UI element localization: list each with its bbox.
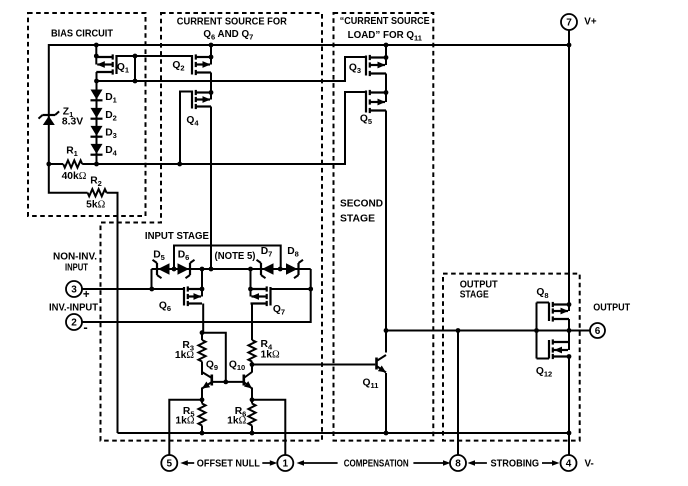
transistor Q11 NPN second stage bbox=[385, 331, 387, 353]
transistor Q6 PMOS input bbox=[201, 269, 203, 289]
junction Q7 source-bulk tie bbox=[248, 287, 253, 292]
transistor Q5 PMOS bbox=[365, 91, 367, 113]
svg-text:5: 5 bbox=[167, 459, 173, 470]
pin 1 offset null bbox=[277, 455, 293, 471]
junction Q1 gate tie top bbox=[133, 54, 138, 59]
svg-text:1kΩ: 1kΩ bbox=[175, 416, 194, 427]
label OFFSET NULL with arrows bbox=[185, 462, 194, 464]
transistor Q4 PMOS bbox=[180, 92, 192, 165]
dashed box: OUTPUT STAGE block bbox=[443, 274, 580, 441]
junction pin2 wire / Q7 gate / D8 cathode bbox=[308, 287, 313, 292]
transistor Q8 PMOS output bbox=[548, 303, 550, 322]
junction compensation line / pin 8 stem bbox=[456, 328, 461, 333]
svg-text:INPUT STAGE: INPUT STAGE bbox=[145, 231, 209, 242]
wire V+ drop to Q8 source bbox=[568, 45, 570, 305]
junction bias line / Q1 gate tie bbox=[133, 79, 138, 84]
transistor Q12 NMOS output bbox=[548, 340, 550, 359]
wire pin5 jog bbox=[169, 400, 202, 455]
svg-text:STROBING: STROBING bbox=[491, 459, 540, 470]
resistor R6 1k bbox=[248, 404, 255, 426]
junction Q6 drain / R3 top / bases feed bbox=[200, 330, 205, 335]
svg-text:5kΩ: 5kΩ bbox=[86, 200, 105, 211]
resistor R5 1k bbox=[198, 404, 205, 426]
pin 6 output bbox=[590, 323, 605, 338]
svg-text:SECOND: SECOND bbox=[340, 199, 383, 210]
junction V+ rail / Q2 source bbox=[209, 43, 214, 48]
diode D4 bbox=[91, 144, 103, 154]
wire V- rail y=433 bbox=[118, 432, 570, 434]
junction Q1 source-bulk tie bbox=[94, 54, 99, 59]
junction Q2 source-bulk tie bbox=[209, 55, 214, 60]
junction V+ rail / Q3 source bbox=[384, 43, 389, 48]
diode D2 bbox=[91, 108, 103, 118]
svg-text:2: 2 bbox=[71, 318, 77, 329]
dashed box: CURRENT SOURCE LOAD / SECOND STAGE block bbox=[334, 13, 434, 441]
svg-text:OFFSET NULL: OFFSET NULL bbox=[197, 459, 260, 470]
pin 3 non-inverting input bbox=[66, 281, 82, 297]
svg-text:INPUT: INPUT bbox=[65, 263, 88, 274]
wire bias feed to diode midpoints y=245.5 bbox=[174, 246, 281, 270]
svg-text:8.3V: 8.3V bbox=[62, 116, 83, 127]
transistor Q1 PMOS bbox=[95, 45, 97, 57]
junction D7-D8 midpoint bbox=[278, 267, 283, 272]
junction R4 bottom / Q10 collector / Q11 base line bbox=[250, 362, 255, 367]
zener Z1 8.3V bbox=[43, 114, 56, 116]
wire pin3 to Q6 gate bbox=[82, 288, 184, 290]
svg-text:STAGE: STAGE bbox=[460, 290, 489, 301]
junction V- rail / R6 bottom bbox=[250, 431, 255, 436]
svg-text:(NOTE 5): (NOTE 5) bbox=[215, 251, 256, 262]
pin 5 offset null bbox=[161, 455, 177, 471]
label STROBING with arrows bbox=[473, 462, 487, 464]
wire diode line y=269 bbox=[152, 268, 311, 270]
wire Q6 drain to Q9/Q10 bases bbox=[202, 333, 226, 382]
diode D7 zener bbox=[260, 263, 262, 275]
transistor Q7 PMOS input bbox=[250, 269, 252, 289]
transistor Q3 PMOS bbox=[365, 56, 367, 76]
junction V- rail / pin 4 stem bbox=[567, 431, 572, 436]
svg-text:40kΩ: 40kΩ bbox=[62, 171, 87, 182]
junction D5-D6 midpoint bbox=[172, 267, 177, 272]
junction compensation line / output gate bus bbox=[534, 328, 539, 333]
svg-text:“CURRENT SOURCE: “CURRENT SOURCE bbox=[340, 16, 430, 27]
svg-text:1: 1 bbox=[283, 459, 289, 470]
svg-text:STAGE: STAGE bbox=[340, 213, 375, 224]
junction Q5 drain / Q11 collector / compensation line bbox=[384, 328, 389, 333]
wire gate line Q1-Q2 y=56 bbox=[117, 55, 193, 57]
label COMPENSATION with arrows bbox=[302, 462, 338, 464]
wire bias line y=81 from D1 node to Q3 gate bbox=[97, 57, 367, 81]
transistor Q2 PMOS bbox=[191, 55, 193, 75]
svg-text:COMPENSATION: COMPENSATION bbox=[344, 459, 409, 470]
wire R2 branch from node to V- left drop bbox=[49, 164, 88, 193]
wire gate-to-drain tie at x=135 bbox=[134, 56, 136, 81]
junction V+ drop / Q8 source bbox=[567, 302, 572, 307]
svg-text:1kΩ: 1kΩ bbox=[227, 416, 246, 427]
svg-text:NON-INV.: NON-INV. bbox=[53, 251, 97, 262]
junction pin3 wire / D5 cathode bbox=[149, 287, 154, 292]
pin 8 strobing bbox=[450, 455, 466, 471]
junction diode line / Q6 source bbox=[200, 267, 205, 272]
wire pin2 to Q7 gate / D8 node bbox=[82, 269, 311, 322]
svg-text:LOAD” FOR Q11​: LOAD” FOR Q11​ bbox=[348, 30, 422, 43]
svg-text:7: 7 bbox=[566, 18, 572, 29]
svg-text:4: 4 bbox=[566, 459, 572, 470]
svg-text:8: 8 bbox=[455, 459, 461, 470]
pin 4 V- bbox=[561, 455, 577, 471]
svg-text:V-: V- bbox=[585, 459, 594, 470]
junction Q10 emitter / R6 top / pin1 jog bbox=[250, 397, 255, 402]
svg-text:BIAS CIRCUIT: BIAS CIRCUIT bbox=[51, 28, 113, 39]
wire Q11 emitter to V- rail bbox=[385, 373, 387, 433]
transistor Q10 NPN bbox=[251, 365, 253, 373]
junction V- rail / Q11 emitter bbox=[384, 431, 389, 436]
svg-text:6: 6 bbox=[595, 326, 601, 337]
wire V+ rail y=45 with left drop through Z1 to R1 node bbox=[49, 45, 569, 164]
diode D1 bbox=[96, 81, 98, 164]
junction bias line / D1 anode bbox=[94, 79, 99, 84]
junction Q9 emitter / R5 top / pin5 jog bbox=[200, 397, 205, 402]
junction Q3 source-bulk tie bbox=[384, 55, 389, 60]
wire Q7 gate lead bbox=[271, 288, 311, 290]
junction Q8 drain / Q12 drain / pin 6 wire bbox=[567, 328, 572, 333]
junction Q6 source-bulk tie bbox=[200, 287, 205, 292]
pin 2 inverting input bbox=[66, 314, 82, 330]
transistor Q9 NPN bbox=[211, 375, 214, 386]
svg-text:CURRENT SOURCE FOR: CURRENT SOURCE FOR bbox=[177, 17, 287, 28]
junction diode line / Q4 drain bbox=[209, 267, 214, 272]
junction Q2 drain / Q4 source bbox=[209, 90, 214, 95]
wire base line Q9-Q10 bbox=[213, 381, 244, 383]
junction Z1 / R1 / R2 node bbox=[46, 162, 51, 167]
diode D6 zener bbox=[189, 263, 191, 275]
dashed box: BIAS CIRCUIT block bbox=[28, 13, 146, 216]
junction V- rail / R5 bottom bbox=[200, 431, 205, 436]
resistor R4 1k bbox=[248, 340, 255, 362]
wire D5 cathode drop to pin3 wire bbox=[151, 269, 153, 289]
wire gate bus Q8/Q12 bbox=[536, 303, 538, 359]
wire R4 bottom node to Q11 base bbox=[252, 364, 375, 366]
wire pin8 stem bbox=[457, 331, 459, 456]
wire pin4 stem bbox=[568, 433, 570, 455]
resistor R3 1k bbox=[198, 340, 205, 362]
svg-text:1kΩ: 1kΩ bbox=[175, 350, 194, 361]
junction V+ rail / pin 7 bbox=[567, 43, 572, 48]
junction Q9-Q10 base line bbox=[223, 380, 228, 385]
svg-text:OUTPUT: OUTPUT bbox=[593, 302, 630, 313]
wire Z1/R1 node line y=164 to Q5 gate bbox=[49, 163, 63, 165]
svg-text:1kΩ: 1kΩ bbox=[261, 350, 280, 361]
pin 7 V+ bbox=[568, 30, 570, 45]
resistor R1 40k bbox=[63, 160, 82, 167]
svg-text:Q6​ AND Q7​: Q6​ AND Q7​ bbox=[203, 29, 253, 42]
svg-text:V+: V+ bbox=[584, 16, 597, 27]
junction R1 / D4 cathode bbox=[94, 162, 99, 167]
wire pin1 jog bbox=[252, 400, 285, 455]
dashed box: CURRENT SOURCE FOR Q6 AND Q7 + INPUT STAGE block outline bbox=[101, 13, 323, 441]
svg-text:INV.-INPUT: INV.-INPUT bbox=[49, 303, 98, 314]
junction V+ rail / Q1 source bbox=[94, 43, 99, 48]
junction Q3 drain / Q5 source bbox=[384, 90, 389, 95]
diode D5 zener bbox=[156, 263, 158, 275]
diode D8 zener bbox=[297, 263, 299, 275]
junction diode line / Q7 source bbox=[248, 267, 253, 272]
junction Q12 source-bulk tie bbox=[567, 354, 572, 359]
diode D3 bbox=[91, 126, 103, 136]
svg-text:3: 3 bbox=[71, 285, 77, 296]
svg-text:+: + bbox=[83, 289, 90, 301]
junction Q4 gate / R1 node line bbox=[177, 162, 182, 167]
resistor R2 5k bbox=[88, 189, 107, 196]
wire second stage output line y=330.5 bbox=[386, 330, 590, 332]
